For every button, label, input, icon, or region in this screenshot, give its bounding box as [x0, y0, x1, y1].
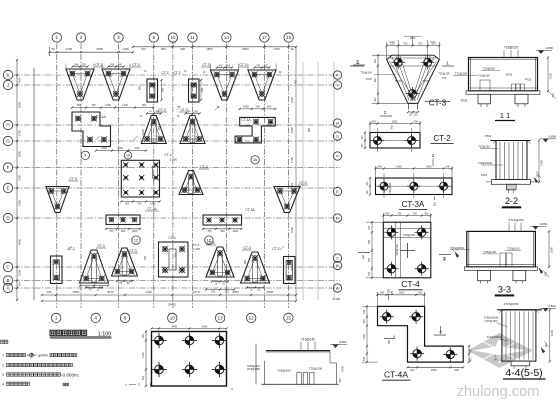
- svg-text:900: 900: [259, 90, 263, 95]
- axis bubble J left: [3, 80, 12, 89]
- svg-text:1: 1: [56, 35, 59, 40]
- svg-text:400: 400: [424, 211, 429, 215]
- section 3-3 stirrups: [500, 253, 512, 267]
- svg-text:17: 17: [262, 35, 268, 40]
- svg-text:550: 550: [174, 252, 178, 257]
- svg-text:1440: 1440: [202, 324, 208, 328]
- axis bubble 10 top: [168, 33, 177, 42]
- svg-text:900: 900: [121, 229, 126, 233]
- svg-text:400: 400: [363, 356, 366, 361]
- svg-text:J: J: [7, 83, 9, 88]
- svg-text:1: 1: [55, 316, 58, 321]
- svg-text:-0.800: -0.800: [539, 222, 547, 226]
- svg-text:370: 370: [109, 229, 114, 233]
- svg-text:50: 50: [291, 47, 295, 51]
- svg-text:T12@200: T12@200: [451, 246, 464, 250]
- axis bubble 1 bottom: [52, 313, 61, 322]
- axis bubble 15 top: [284, 33, 293, 42]
- pile cap CT-3 grid2/K: [102, 63, 141, 100]
- svg-text:650: 650: [74, 63, 79, 66]
- svg-text:400: 400: [378, 164, 383, 168]
- section 1-1 right dim 1200: [547, 56, 556, 99]
- detail CT-2 label: [431, 134, 454, 144]
- svg-text:CT-3: CT-3: [158, 108, 165, 112]
- svg-text:-0.800m;: -0.800m;: [61, 372, 79, 377]
- svg-text:900: 900: [294, 79, 298, 84]
- section 3-3 label: [495, 285, 514, 297]
- interior dimension chain row1: [71, 103, 154, 108]
- interior axis bubble 9: [81, 151, 89, 159]
- svg-text:T25@100: T25@100: [277, 368, 291, 372]
- axis bubble G left: [3, 136, 12, 145]
- svg-text:12: 12: [134, 238, 139, 243]
- section 3-3 top leader: [509, 218, 524, 231]
- svg-text:CT-2: CT-2: [67, 247, 74, 251]
- svg-text:400: 400: [374, 97, 377, 102]
- svg-text:1400: 1400: [243, 105, 249, 109]
- section 3-3 pile stub right: [513, 270, 526, 283]
- svg-text:CT-3A: CT-3A: [147, 207, 157, 211]
- svg-text:T25@120: T25@120: [388, 182, 392, 194]
- section 1-1 stirrups: [480, 80, 525, 91]
- detail CT-4 beam strips: [383, 222, 431, 278]
- svg-text:CT-3: CT-3: [200, 165, 207, 169]
- svg-text:3-3: 3-3: [498, 285, 511, 295]
- axis bubble G right: [333, 132, 341, 140]
- svg-text:5: 5: [387, 289, 390, 294]
- svg-text:500: 500: [141, 375, 145, 380]
- svg-text:29410: 29410: [168, 303, 177, 307]
- interior axis bubble 12: [132, 236, 140, 244]
- detail CT-4 bottom section mark 5: [391, 291, 394, 296]
- svg-text:4T25: 4T25: [525, 78, 532, 82]
- svg-text:-0.800: -0.800: [545, 46, 553, 50]
- svg-text:8T25: 8T25: [506, 73, 513, 77]
- interior vertical dims: [138, 79, 298, 257]
- svg-text:CT-2: CT-2: [272, 247, 279, 251]
- svg-text:10: 10: [126, 154, 130, 158]
- svg-text:T16@150: T16@150: [504, 46, 518, 50]
- svg-text:······: ······: [285, 387, 290, 389]
- svg-text:400: 400: [267, 105, 272, 109]
- section 1-1 elevation mark: [536, 46, 553, 54]
- detail CT-4 cap outline: [383, 222, 431, 278]
- detail CT-3A top dims: [374, 164, 453, 178]
- axis bubble D right: [333, 214, 341, 222]
- svg-text:T25@100: T25@100: [438, 72, 450, 76]
- svg-text:CT-3: CT-3: [69, 177, 76, 181]
- svg-text:300: 300: [552, 92, 555, 97]
- interior dimension chain row1b: [239, 105, 277, 110]
- svg-text:1400: 1400: [132, 229, 138, 233]
- svg-text:700: 700: [141, 47, 146, 51]
- svg-text:CT-2: CT-2: [433, 134, 451, 143]
- svg-text:2: 2: [80, 35, 83, 40]
- pile cap CT-2 plan A left: [51, 247, 75, 284]
- svg-text:1440: 1440: [141, 352, 145, 358]
- section 3-3 blinding strip: [465, 267, 538, 271]
- svg-text:K: K: [336, 72, 339, 77]
- axis bubble 3 top: [114, 33, 123, 42]
- mini chains above H-row triangles: [140, 110, 201, 118]
- svg-text:700: 700: [403, 41, 408, 45]
- pile cap CT-3 plan H/G b: [179, 108, 205, 144]
- svg-text:CT-4A: CT-4A: [384, 370, 408, 380]
- svg-text:(4T25): (4T25): [494, 358, 502, 362]
- left inner vertical line: [33, 68, 35, 300]
- svg-text:1200: 1200: [550, 329, 554, 336]
- svg-text:900: 900: [201, 87, 204, 92]
- svg-text:CT-3: CT-3: [180, 108, 187, 112]
- svg-text:1600: 1600: [392, 119, 398, 123]
- detail CT-3A pile 1: [377, 179, 391, 193]
- svg-text:450: 450: [77, 103, 82, 107]
- svg-text:1400: 1400: [150, 203, 156, 206]
- svg-text:H: H: [336, 120, 339, 125]
- pile cap CT-2 grid11/K: [173, 71, 199, 102]
- svg-text:400: 400: [414, 119, 419, 123]
- svg-text:T12@200: T12@200: [455, 72, 468, 76]
- detail CT-2 cap outline: [370, 133, 420, 149]
- pile cap CT-4 plan bottom (square): [159, 236, 189, 277]
- svg-text::: :: [9, 340, 10, 344]
- detail CT-3 pile 3: [406, 87, 420, 101]
- svg-text:CT-4: CT-4: [164, 153, 171, 157]
- svg-text:-1.300: -1.300: [169, 158, 177, 162]
- assorted leader marks in plan: [68, 106, 284, 250]
- svg-text:8T25: 8T25: [366, 77, 372, 81]
- axis bubble 4 bottom: [91, 313, 100, 322]
- detail CT-3 bottom dims and section 2 mark: [380, 110, 419, 117]
- svg-text:300: 300: [545, 271, 548, 276]
- svg-text:11: 11: [190, 35, 195, 40]
- right dimension texts column: [290, 56, 296, 300]
- svg-text:1400: 1400: [426, 164, 432, 168]
- mini chains below A-row caps: [85, 280, 264, 292]
- svg-text:4980: 4980: [18, 238, 22, 245]
- svg-text:400: 400: [363, 309, 366, 314]
- section 2-2 pile stub: [507, 184, 517, 193]
- section 4-4 cap body: [497, 310, 542, 361]
- svg-text:D: D: [336, 215, 339, 220]
- detail CT-3A centerlines: [376, 173, 453, 198]
- svg-text:C: C: [336, 255, 339, 260]
- general notes text: [1, 340, 80, 386]
- svg-text:······: ······: [268, 387, 273, 389]
- detail CT-2 centerlines: [370, 128, 420, 152]
- detail CT-4 top dims: [382, 211, 432, 222]
- svg-text:790: 790: [211, 290, 216, 294]
- axis bubble F left: [3, 163, 12, 172]
- svg-text:8T25: 8T25: [461, 99, 468, 103]
- svg-text:1650: 1650: [141, 129, 145, 135]
- section 1-1 pile stub right: [515, 94, 528, 107]
- svg-text:5: 5: [153, 35, 156, 40]
- svg-text:700: 700: [137, 203, 142, 206]
- svg-text:G: G: [336, 133, 339, 138]
- svg-text:400: 400: [372, 119, 377, 123]
- svg-text:CT-3: CT-3: [429, 99, 447, 108]
- detail CT-3 internal reinforcement lines: [389, 56, 437, 101]
- svg-text:2900: 2900: [290, 264, 294, 271]
- axis bubble K right: [333, 71, 341, 79]
- detail CT-3A section marks 2: [432, 153, 437, 207]
- svg-text:2980: 2980: [18, 150, 22, 157]
- detail CT-2 section 2 mark top: [390, 125, 393, 130]
- pile cap CT-4A plan right (Z-shape): [235, 117, 275, 142]
- svg-text:1400: 1400: [232, 229, 238, 233]
- svg-text:1300: 1300: [540, 159, 544, 166]
- svg-text:1500: 1500: [18, 269, 22, 276]
- svg-text:3070: 3070: [107, 290, 114, 294]
- detail CT-3 section marks 1: [353, 60, 454, 67]
- svg-text:A: A: [231, 387, 233, 391]
- axis bubble 11 top: [188, 33, 197, 42]
- detail CT-4A cap outline (Z shape): [378, 306, 464, 362]
- tiny footer marks at bottom: [125, 383, 151, 388]
- svg-text:CT-3: CT-3: [129, 249, 136, 253]
- detail CT-4A top dims: [376, 291, 425, 307]
- detail CT-2 left dims: [362, 131, 366, 149]
- axis bubble C right: [333, 254, 341, 262]
- section 2-2 elevation mark: [540, 134, 556, 141]
- pile cap CT-3 plan F left: [46, 177, 78, 213]
- svg-text:CT-3: CT-3: [299, 181, 306, 185]
- svg-text:12: 12: [207, 238, 212, 243]
- svg-text:2: 2: [384, 110, 387, 115]
- svg-text:12: 12: [249, 316, 255, 321]
- axis bubble 1 top: [52, 33, 61, 42]
- svg-text:T25@120: T25@120: [484, 250, 497, 254]
- pile cap CT-3 plan A left: [80, 244, 109, 283]
- top dimension chain upper: [132, 46, 297, 52]
- pile symbol P4 in group detail: [151, 362, 166, 377]
- axis bubble 15 bottom: [284, 313, 293, 322]
- svg-text:T14@150: T14@150: [478, 74, 490, 78]
- svg-text:E: E: [336, 189, 339, 194]
- svg-text:3: 3: [117, 35, 120, 40]
- pile cap CT-2 plan A right: [272, 247, 295, 284]
- mini vertical dims next to caps: [144, 79, 311, 264]
- svg-text:1850: 1850: [206, 47, 213, 51]
- svg-text:T25@130: T25@130: [395, 244, 399, 256]
- detail CT-3A pile 2: [407, 179, 421, 193]
- svg-text:3|: 3|: [138, 383, 140, 387]
- extra right vertical grid lines: [303, 62, 334, 300]
- svg-text:T25: T25: [442, 76, 447, 80]
- svg-text:CT-3: CT-3: [95, 63, 102, 67]
- svg-text:4430: 4430: [145, 290, 152, 294]
- section 4-4 top leader: [504, 302, 519, 306]
- svg-text:······: ······: [319, 387, 324, 389]
- svg-text:CT-2: CT-2: [173, 71, 180, 75]
- svg-text:F: F: [7, 165, 10, 170]
- pile symbol P2 in group detail: [182, 333, 197, 348]
- svg-text:7600: 7600: [170, 40, 177, 44]
- axis bubble C left: [3, 262, 12, 271]
- pile cap CT-4A plan left (Z-shape): [72, 112, 111, 147]
- pile group detail rectangle: [152, 332, 227, 387]
- svg-text:10: 10: [170, 316, 176, 321]
- svg-text:······: ······: [302, 387, 307, 389]
- detail CT-4A section marks: [384, 289, 446, 345]
- svg-text:980: 980: [308, 127, 311, 132]
- svg-text:900: 900: [125, 203, 130, 206]
- svg-text:CT-3A: CT-3A: [245, 208, 255, 212]
- svg-text:1400: 1400: [101, 146, 107, 150]
- interior axis bubble pair near CT-4 square: [124, 152, 132, 160]
- svg-text:900: 900: [142, 103, 147, 107]
- svg-text:2: 2: [433, 202, 436, 207]
- extension ticks near K-row caps: [66, 64, 282, 75]
- svg-text:(T16@150): (T16@150): [484, 319, 497, 323]
- svg-text:3180: 3180: [18, 199, 22, 206]
- svg-text:8T16: 8T16: [485, 134, 492, 138]
- section 3-3 left arrow mark: [443, 247, 459, 261]
- svg-text:8T25: 8T25: [395, 79, 401, 83]
- svg-text:1 1: 1 1: [500, 111, 510, 120]
- pile cap CT-3 plan H/G a: [141, 108, 167, 144]
- svg-text:-0.800: -0.800: [548, 304, 556, 308]
- detail CT-4 center cross: [400, 243, 415, 258]
- svg-text:766: 766: [110, 63, 115, 66]
- svg-text:900: 900: [220, 229, 225, 233]
- axis bubble H left: [3, 120, 12, 129]
- svg-text:1600: 1600: [410, 36, 416, 40]
- pile cap CT-2 grid5/K: [147, 71, 169, 102]
- detail CT-4A piles: [380, 310, 394, 324]
- section 4-4 bottom stub: [511, 361, 530, 369]
- detail CT-2 pile 2: [405, 134, 419, 148]
- svg-text:400: 400: [418, 291, 423, 295]
- svg-text:3: 3: [362, 255, 365, 260]
- detail CT-4A right dims: [468, 345, 473, 363]
- svg-text:4470: 4470: [193, 290, 200, 294]
- svg-text:CT-4A: CT-4A: [241, 118, 251, 122]
- svg-text:550: 550: [157, 125, 161, 130]
- pile symbol P5 in group detail: [182, 362, 197, 377]
- pile cap CT-3 plan D: [274, 181, 308, 213]
- svg-text:800: 800: [374, 77, 377, 82]
- svg-text:(T16@150): (T16@150): [247, 367, 260, 371]
- svg-text:8T22: 8T22: [481, 173, 487, 177]
- section 1-1 pile stub left: [478, 94, 491, 107]
- svg-text:900: 900: [162, 87, 165, 92]
- svg-text:A: A: [336, 285, 339, 290]
- svg-text:440: 440: [219, 64, 224, 67]
- detail CT-3 label: [425, 99, 450, 108]
- svg-text:2: 2: [2, 364, 4, 368]
- detail CT-3 top dimension chain: [386, 36, 441, 59]
- title block: plan title: [50, 330, 112, 338]
- svg-text:2900: 2900: [266, 290, 273, 294]
- svg-text:2550: 2550: [117, 146, 123, 150]
- svg-text:5: 5: [388, 340, 391, 345]
- svg-text:4-4(5-5): 4-4(5-5): [505, 367, 542, 379]
- svg-text:3600: 3600: [96, 47, 103, 51]
- horizontal grid lines: [14, 75, 341, 288]
- detail CT-4 label: [399, 279, 423, 290]
- svg-text:952: 952: [264, 64, 269, 67]
- axis bubble J right: [333, 81, 341, 89]
- watermark logo diamond: [467, 333, 533, 368]
- axis bubble 13 bottom: [215, 313, 224, 322]
- svg-text:1: 1: [2, 354, 4, 358]
- svg-text:,: ,: [78, 354, 79, 358]
- detail CT-4A left dims: [362, 305, 378, 363]
- pile cap CT-3 grid1/K: [66, 63, 104, 100]
- svg-text:300: 300: [338, 378, 342, 383]
- section 3-3 pile stub left: [478, 270, 491, 283]
- pile cap CT-3 plan A mid: [206, 241, 234, 277]
- detail CT-3 cap outline: [387, 55, 440, 103]
- svg-text:16: 16: [253, 157, 258, 162]
- axis bubble 8 bottom: [120, 313, 129, 322]
- bottom dimension chain: [41, 290, 297, 307]
- svg-text:13: 13: [218, 316, 224, 321]
- detail CT-3 left dimension: [372, 54, 408, 104]
- interior axis bubble 12: [205, 236, 213, 244]
- svg-text:1450: 1450: [105, 103, 111, 107]
- svg-text:-1.300: -1.300: [332, 297, 340, 301]
- axis bubble A left: [3, 283, 12, 292]
- svg-text:900: 900: [18, 77, 22, 82]
- svg-text:700: 700: [418, 41, 423, 45]
- pile cap CT-3 grid14a/K: [201, 63, 239, 100]
- svg-text:3400: 3400: [290, 126, 294, 133]
- mini dimension chains above K-row caps: [71, 63, 270, 68]
- section 2-2 label: [502, 196, 521, 208]
- detail CT-4A label: [382, 370, 411, 381]
- svg-text:400: 400: [374, 58, 377, 63]
- svg-text:4100: 4100: [290, 226, 294, 233]
- pile cap CT-3 plan F/E: [179, 165, 209, 195]
- svg-text:1: 1: [446, 61, 449, 66]
- svg-text:3600: 3600: [18, 101, 22, 108]
- svg-text:8: 8: [124, 316, 127, 321]
- axis bubble 10 bottom: [168, 313, 177, 322]
- detail CT-4 left dims: [366, 221, 384, 279]
- detail CT-3 pile 2: [421, 56, 435, 70]
- top dimension chain lower: [48, 40, 296, 56]
- svg-text:T12@200(4): T12@200(4): [487, 335, 502, 339]
- svg-text:980: 980: [295, 187, 298, 192]
- section 4-4 rebar labels: [484, 315, 509, 361]
- section 1-1 blinding layer strip: [466, 91, 540, 95]
- svg-text:G: G: [6, 139, 10, 144]
- svg-text:T16@150: T16@150: [301, 338, 315, 342]
- section 2-2 labels: [478, 134, 503, 177]
- svg-text:190: 190: [47, 290, 52, 294]
- section 3-3 rebar labels: [450, 246, 521, 254]
- svg-text:50 90: 50 90: [389, 42, 395, 44]
- svg-text:T16@150: T16@150: [478, 145, 490, 149]
- svg-text:300: 300: [545, 343, 548, 348]
- svg-text:-0.800: -0.800: [339, 340, 347, 344]
- detail CT-3A cap outline: [376, 178, 453, 195]
- svg-text:1780: 1780: [18, 129, 22, 136]
- svg-text:400: 400: [385, 211, 390, 215]
- svg-text:2400: 2400: [290, 96, 294, 103]
- svg-text:15: 15: [286, 35, 292, 40]
- axis bubble F right: [333, 152, 341, 160]
- detail CT-3A label: [399, 200, 427, 210]
- axis bubble 12 bottom: [247, 313, 256, 322]
- svg-text:760: 760: [91, 103, 96, 107]
- svg-text:955: 955: [194, 110, 199, 113]
- svg-text:1400: 1400: [363, 334, 366, 340]
- axis bubble 5 top: [149, 33, 158, 42]
